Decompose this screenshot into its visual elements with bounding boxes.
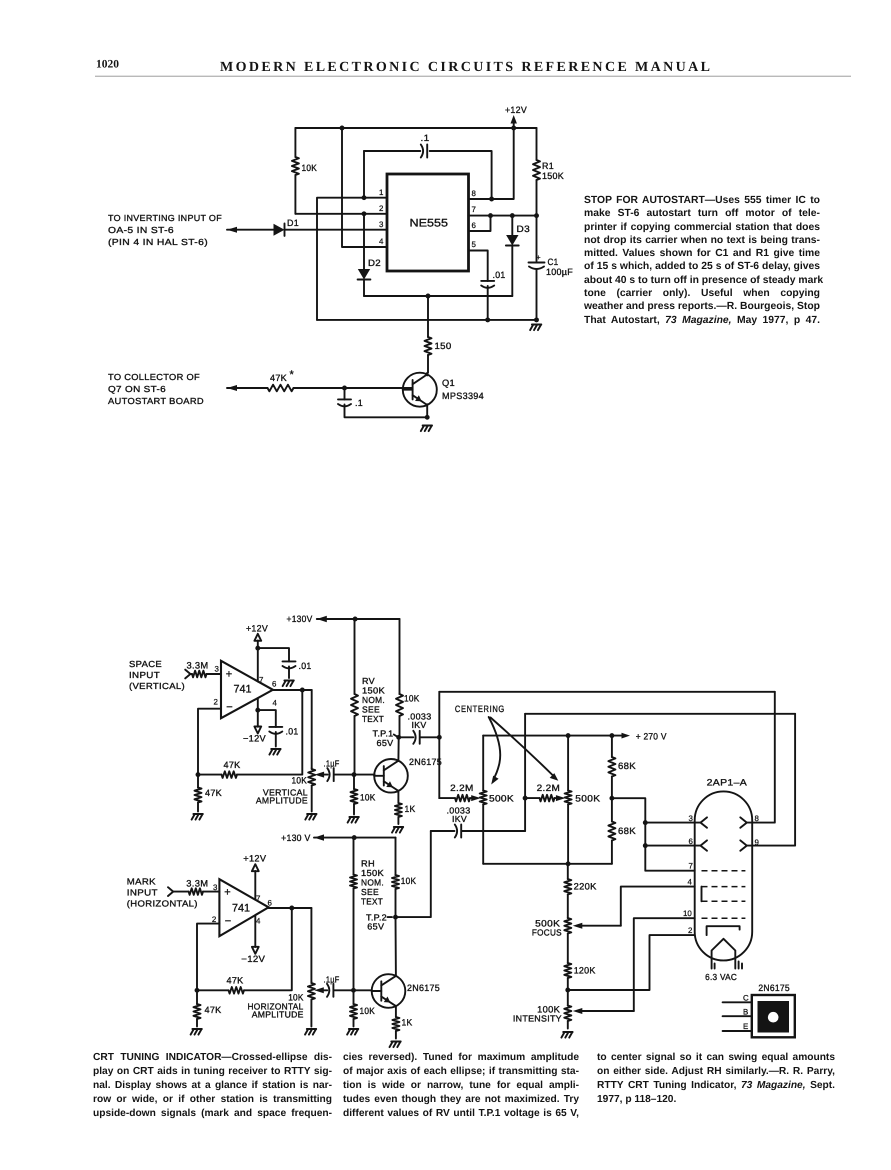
junction base space <box>352 772 357 777</box>
wire pin2 to divider <box>568 935 695 990</box>
svg-text:2: 2 <box>214 698 218 707</box>
electrode dash pin7 <box>702 870 746 872</box>
svg-text:3: 3 <box>689 814 694 823</box>
junction 120K/100K <box>565 988 570 993</box>
caption column 2 <box>343 1051 579 1121</box>
label +12V space <box>246 624 269 634</box>
svg-text:2.2M: 2.2M <box>450 783 474 793</box>
wire discharge rail <box>364 295 512 297</box>
label AMPLITUDE mark <box>252 1010 304 1020</box>
label 2AP1-A <box>707 778 748 788</box>
svg-text:3.3M: 3.3M <box>186 879 208 889</box>
pin number 5 <box>472 240 477 249</box>
svg-text:−: − <box>225 916 231 928</box>
svg-text:47K: 47K <box>224 760 242 770</box>
ground under Q1 <box>421 426 432 432</box>
svg-text:+: + <box>224 887 230 899</box>
resistor 47K feedback mark <box>197 987 244 994</box>
label 68K upper <box>618 761 637 771</box>
input terminal chevron (space) <box>185 670 190 679</box>
svg-text:.01: .01 <box>299 661 312 671</box>
page title <box>220 60 711 75</box>
svg-text:68K: 68K <box>618 826 637 836</box>
wire cap to centering net <box>420 736 439 738</box>
svg-text:220K: 220K <box>574 882 598 892</box>
svg-text:TEXT: TEXT <box>361 897 383 907</box>
label +12V supply <box>505 105 528 115</box>
pot 500K centering 2 <box>565 736 572 864</box>
label 10K <box>302 163 318 173</box>
svg-text:500K: 500K <box>489 794 515 804</box>
junction plate3 tap <box>643 820 648 825</box>
svg-text:FOCUS: FOCUS <box>532 928 562 938</box>
resistor R1 150K <box>533 128 540 216</box>
op IC U1 NE555 box <box>387 174 469 271</box>
note SPACE <box>129 659 162 669</box>
label RV NOM. <box>362 695 385 705</box>
svg-text:*: * <box>290 369 295 381</box>
note INPUT (V) <box>129 670 160 680</box>
wire +12V riser space <box>257 641 259 682</box>
svg-text:3: 3 <box>215 665 220 674</box>
heater filament <box>712 939 736 969</box>
resistor 1K space <box>395 803 402 824</box>
junction pin2 / D2 riser <box>362 211 367 216</box>
ground mark pot <box>305 1029 316 1035</box>
junction base / .1 cap <box>342 386 347 391</box>
svg-text:47K: 47K <box>205 1005 223 1015</box>
capacitor .1uF space <box>327 768 333 781</box>
junction output mark <box>289 906 294 911</box>
junction T.P.1 <box>396 735 401 740</box>
grid electrode pin2 <box>707 926 740 935</box>
label 2.2M mark <box>537 783 561 793</box>
svg-text:R1: R1 <box>542 161 554 171</box>
svg-text:741: 741 <box>234 684 252 696</box>
label +270V <box>636 732 668 742</box>
svg-text:9: 9 <box>755 838 760 847</box>
pin 7 crt <box>689 862 693 871</box>
note line: AUTOSTART BOARD <box>108 396 204 406</box>
resistor RH 150K <box>350 838 357 991</box>
pot 500K focus <box>564 918 571 963</box>
wire Q2 collector riser <box>397 737 399 761</box>
note line: TO INVERTING INPUT OF <box>108 213 222 223</box>
svg-text:150K: 150K <box>542 171 565 181</box>
svg-text:+130V: +130V <box>287 614 314 624</box>
svg-text:+: + <box>536 253 541 262</box>
resistor 10K base mark <box>350 990 357 1026</box>
centering arrow left <box>489 717 501 785</box>
svg-text:MPS3394: MPS3394 <box>442 391 484 401</box>
pin 4 crt <box>688 877 693 886</box>
junction pin7 / D3 <box>510 213 515 218</box>
svg-text:E: E <box>743 1022 748 1031</box>
svg-text:AMPLITUDE: AMPLITUDE <box>256 796 308 806</box>
svg-text:6: 6 <box>272 680 277 689</box>
wire pin10 to intensity wiper <box>634 918 695 1011</box>
wire 3.3M to op-amp mark <box>203 891 219 893</box>
svg-text:150: 150 <box>435 341 452 351</box>
svg-text:+130 V: +130 V <box>281 833 311 843</box>
resistor 120K <box>564 963 571 990</box>
pin 3 space <box>215 665 220 674</box>
svg-text:2N6175: 2N6175 <box>409 757 442 767</box>
wire base cap drop <box>344 388 346 400</box>
T.P.1 pointer dash <box>394 735 398 737</box>
pot 10K vertical amplitude <box>308 768 315 812</box>
svg-text:RV: RV <box>362 676 375 686</box>
header rule <box>95 75 851 77</box>
label 65V tp2 <box>367 922 384 932</box>
wire pin 7 to R1 <box>469 215 537 217</box>
capacitor .01 (pin5) <box>481 281 494 288</box>
svg-text:Q1: Q1 <box>442 378 455 388</box>
wire pin 1 to ground riser <box>317 198 387 320</box>
svg-text:+12V: +12V <box>243 854 267 864</box>
wire +12V bypass branch <box>258 648 289 661</box>
heater pin stubs <box>715 962 742 969</box>
junction T.P.2 <box>393 915 398 920</box>
wire -12V riser mark <box>254 916 256 947</box>
label 741 mark <box>232 903 250 915</box>
wire space input <box>190 673 192 675</box>
wire pin 6 to pin 7 <box>469 216 491 231</box>
label MPS3394 <box>442 391 484 401</box>
wire feedback to output mark <box>244 908 292 990</box>
T.P.2 pointer dash <box>388 916 393 918</box>
junction RV top <box>353 617 358 622</box>
junction pin8 / timing cap <box>489 197 494 202</box>
package outline 2N6175 <box>752 995 795 1037</box>
svg-text:2: 2 <box>688 926 692 935</box>
wire output to pot mark <box>310 908 312 982</box>
junction top rail / pin4 riser <box>340 126 345 131</box>
wire pin 4 to top rail <box>342 128 387 247</box>
wire +12V top rail <box>295 127 536 129</box>
label .0033 mark <box>447 806 471 816</box>
svg-text:CENTERING: CENTERING <box>455 704 505 714</box>
wire cap to base space <box>334 774 374 776</box>
label asterisk <box>290 369 295 381</box>
junction feedback mark <box>195 988 200 993</box>
junction rail2 / C1 <box>534 317 539 322</box>
wire inner rail right <box>430 151 492 199</box>
electrode bracket pin4 <box>701 887 703 902</box>
note (HORIZONTAL) <box>127 899 198 909</box>
wire output mark <box>269 907 312 909</box>
svg-text:7: 7 <box>256 894 260 903</box>
+12V arrow space <box>254 634 261 641</box>
wire D3 cathode to rail1 <box>511 246 513 297</box>
junction pin7 / R1-C1 <box>534 213 539 218</box>
pin 3 mark <box>213 883 218 892</box>
wire output space <box>273 689 312 691</box>
svg-text:47K: 47K <box>270 373 288 383</box>
junction -12V bypass space <box>255 708 260 713</box>
label .01 space- <box>286 727 299 737</box>
ground space +12V bypass <box>283 681 294 687</box>
pot 500K centering 1 <box>480 736 487 864</box>
wire pin 8 to +12V <box>469 128 514 199</box>
junction rail2 / pin5 cap <box>485 317 490 322</box>
resistor 68K lower <box>608 798 615 864</box>
svg-text:INTENSITY: INTENSITY <box>513 1014 562 1024</box>
wire output to pot <box>311 690 313 768</box>
svg-text:4: 4 <box>688 877 693 886</box>
svg-text:(PIN 4 IN HAL ST-6): (PIN 4 IN HAL ST-6) <box>108 237 208 247</box>
label -12V space <box>243 734 267 744</box>
wire centering riser mark <box>524 714 526 831</box>
svg-text:AMPLITUDE: AMPLITUDE <box>252 1010 304 1020</box>
label 2N6175 package <box>758 983 790 993</box>
package pin C <box>723 1001 752 1003</box>
svg-text:4: 4 <box>379 237 384 246</box>
svg-text:SPACE: SPACE <box>129 659 162 669</box>
ground intensity chain <box>561 1032 572 1038</box>
label C <box>743 994 749 1003</box>
label 1KV mark <box>452 814 467 824</box>
svg-text:7: 7 <box>689 862 693 871</box>
svg-text:10K: 10K <box>404 694 420 704</box>
wire inner rail left drop <box>363 151 365 198</box>
resistor 3.3M mark <box>189 888 203 895</box>
label 3.3M space <box>187 661 209 671</box>
label .1 base <box>355 398 363 408</box>
note line: Q7 ON ST-6 <box>108 384 166 394</box>
label 10K base space <box>360 793 376 803</box>
label E <box>743 1022 748 1031</box>
svg-text:MARK: MARK <box>127 877 156 887</box>
label RV SEE <box>362 705 380 715</box>
svg-text:10K: 10K <box>360 793 376 803</box>
svg-text:4: 4 <box>273 699 278 708</box>
svg-text:2N6175: 2N6175 <box>407 983 440 993</box>
wire +12V riser mark <box>254 871 256 900</box>
wire cap .01 to rail2 <box>487 286 489 320</box>
wire D2 to bottom rail 1 <box>363 280 365 297</box>
junction tp1 net / riser <box>437 735 442 740</box>
label .1uF mark <box>324 975 340 985</box>
junction pot2 top <box>566 733 571 738</box>
transistor Q2 2N6175 space <box>374 759 408 793</box>
svg-text:NE555: NE555 <box>410 218 449 230</box>
label T.P.2 <box>366 913 387 923</box>
wire rail2 (mark signal) <box>525 713 795 715</box>
label 10K pot space <box>292 776 308 786</box>
caption column 3 <box>597 1051 835 1107</box>
caption column 1 <box>93 1051 332 1121</box>
svg-text:INPUT: INPUT <box>127 888 158 898</box>
label +130V mark <box>281 833 311 843</box>
label 68K lower <box>618 826 637 836</box>
wire pin 2 drop to D2 <box>363 214 365 269</box>
svg-text:1: 1 <box>379 188 383 197</box>
plate chevron pin6 <box>701 840 708 850</box>
label 3.3M mark <box>186 879 208 889</box>
label .01 space+ <box>299 661 312 671</box>
capacitor .1 (pins 1-8) <box>421 145 427 158</box>
label VERTICAL <box>263 788 308 798</box>
note line: (PIN 4 IN HAL ST-6) <box>108 237 208 247</box>
wire feedback to output <box>237 690 302 775</box>
op-amp U3 741 triangle <box>219 879 268 936</box>
wire 150 to Q1 collector <box>426 373 428 376</box>
label RH NOM. <box>361 878 384 888</box>
electrode dash pin4 <box>702 886 746 888</box>
label RH <box>361 859 375 869</box>
wire D3 anode <box>511 216 513 235</box>
svg-text:.1µF: .1µF <box>324 975 340 985</box>
junction 68K top <box>609 733 614 738</box>
svg-text:8: 8 <box>472 189 477 198</box>
resistor 2.2M space <box>455 795 470 802</box>
pin 7 space <box>259 676 263 685</box>
svg-text:4: 4 <box>256 916 261 925</box>
ground space base 10K <box>348 817 359 823</box>
svg-text:T.P.1: T.P.1 <box>373 729 394 739</box>
resistor 47K gnd space <box>195 775 202 812</box>
resistor 10K <box>292 128 299 214</box>
label 220K <box>574 882 598 892</box>
wire plate 3 <box>645 822 700 824</box>
junction bottom rail / pot2 <box>566 861 571 866</box>
-12V arrow mark <box>252 947 259 954</box>
label 2N6175 mark <box>407 983 440 993</box>
svg-text:.01: .01 <box>286 727 299 737</box>
svg-text:INPUT: INPUT <box>129 670 160 680</box>
label 47K base <box>270 373 288 383</box>
svg-text:(HORIZONTAL): (HORIZONTAL) <box>127 899 198 909</box>
wire ground rail <box>317 319 537 321</box>
op-amp minus sign space <box>226 702 232 714</box>
svg-text:C1: C1 <box>548 257 559 267</box>
wire 10K bottom to pin 2 <box>295 213 387 215</box>
resistor 10K collector space <box>396 694 403 737</box>
svg-text:+12V: +12V <box>246 624 269 634</box>
pot wiper arrow focus <box>573 923 621 929</box>
label 47K gnd mark <box>205 1005 223 1015</box>
wire plate 8 to rail1 <box>747 692 775 823</box>
svg-text:IKV: IKV <box>452 814 467 824</box>
label 100uF <box>546 267 573 277</box>
label B <box>743 1008 748 1017</box>
label 500K pot1 <box>489 794 515 804</box>
wire Q4 emitter drop <box>395 1006 397 1017</box>
wire pin2 space <box>198 709 221 775</box>
label INTENSITY <box>513 1014 562 1024</box>
resistor 2.2M mark <box>540 795 555 802</box>
plate chevron pin3 <box>701 817 708 827</box>
resistor 68K upper <box>608 736 615 799</box>
op-amp minus sign mark <box>225 916 231 928</box>
junction top rail / pin8 riser <box>511 126 516 131</box>
pot wiper arrow intensity <box>573 1008 634 1014</box>
svg-text:−12V: −12V <box>243 734 267 744</box>
ground top right <box>530 325 541 331</box>
note (VERTICAL) <box>129 681 185 691</box>
wire tp2 right <box>396 831 431 917</box>
wire plate 6 <box>645 845 700 847</box>
resistor 1K mark <box>392 1017 399 1039</box>
label 1KV space <box>412 720 427 730</box>
note line: TO COLLECTOR OF <box>108 372 200 382</box>
transistor Q1 MPS3394 <box>403 373 437 407</box>
svg-text:+: + <box>226 669 232 681</box>
svg-text:10K: 10K <box>292 776 308 786</box>
pin 10 crt <box>683 909 692 918</box>
svg-text:10K: 10K <box>401 876 417 886</box>
ground space 1K <box>392 827 403 833</box>
svg-text:TO INVERTING INPUT OF: TO INVERTING INPUT OF <box>108 213 222 223</box>
junction 2.2M mark riser <box>523 796 528 801</box>
pin number 6 <box>472 221 477 230</box>
wire +130V mark <box>314 837 396 839</box>
label 741 space <box>234 684 252 696</box>
ground space 47K <box>192 814 203 820</box>
label 500K focus <box>535 919 561 929</box>
wire tp1 to cap <box>399 736 414 738</box>
pot wiper arrow mark <box>314 987 327 993</box>
pin number 4 <box>379 237 384 246</box>
wire rail1 (space signal) <box>439 691 775 693</box>
junction RH top <box>352 835 357 840</box>
resistor 220K <box>564 864 571 918</box>
svg-text:47K: 47K <box>227 976 245 986</box>
pin 4 space <box>273 699 278 708</box>
junction base mark <box>351 988 356 993</box>
wire pin4 to focus wiper <box>621 887 695 926</box>
pin 6 mark <box>268 899 273 908</box>
wire riser to 2.2M space <box>439 797 455 799</box>
junction plate6 tap <box>643 843 648 848</box>
wire D1 to pin 3 <box>286 229 388 231</box>
op-amp plus sign mark <box>224 887 230 899</box>
pin 4 mark <box>256 916 261 925</box>
svg-text:.1: .1 <box>421 133 430 143</box>
capacitor .1uF mark <box>327 984 333 997</box>
wire -12V bypass branch <box>258 710 276 727</box>
label 1K space <box>405 804 417 814</box>
svg-text:6: 6 <box>472 221 477 230</box>
wire +270V rail <box>483 735 626 737</box>
package pin B <box>723 1015 752 1017</box>
svg-text:NOM.: NOM. <box>361 878 384 888</box>
wire pin 5 to cap <box>469 251 488 282</box>
wire pin2 mark <box>197 924 219 991</box>
plate chevron pin8 <box>740 817 747 827</box>
label -12V mark <box>241 954 266 964</box>
svg-text:2.2M: 2.2M <box>537 783 561 793</box>
label AMPLITUDE <box>256 796 308 806</box>
capacitor .01 (space +12V) <box>283 661 296 668</box>
label 10K pot mark <box>288 993 304 1003</box>
wire Q4 collector riser <box>395 917 397 976</box>
resistor 10K collector mark <box>392 875 399 917</box>
svg-text:65V: 65V <box>377 738 394 748</box>
wire tp2 up to cap <box>431 830 455 832</box>
pot 10K horizontal amplitude <box>308 982 315 1027</box>
note INPUT (H) <box>127 888 158 898</box>
label FOCUS <box>532 928 562 938</box>
pin 2 crt <box>688 926 692 935</box>
svg-text:AUTOSTART BOARD: AUTOSTART BOARD <box>108 396 204 406</box>
label RV TEXT <box>362 714 384 724</box>
junction pin1 / cap riser <box>362 195 367 200</box>
label .1uF space <box>324 759 340 769</box>
wire base cap to emitter rail <box>345 405 428 418</box>
label T.P.1 <box>373 729 394 739</box>
